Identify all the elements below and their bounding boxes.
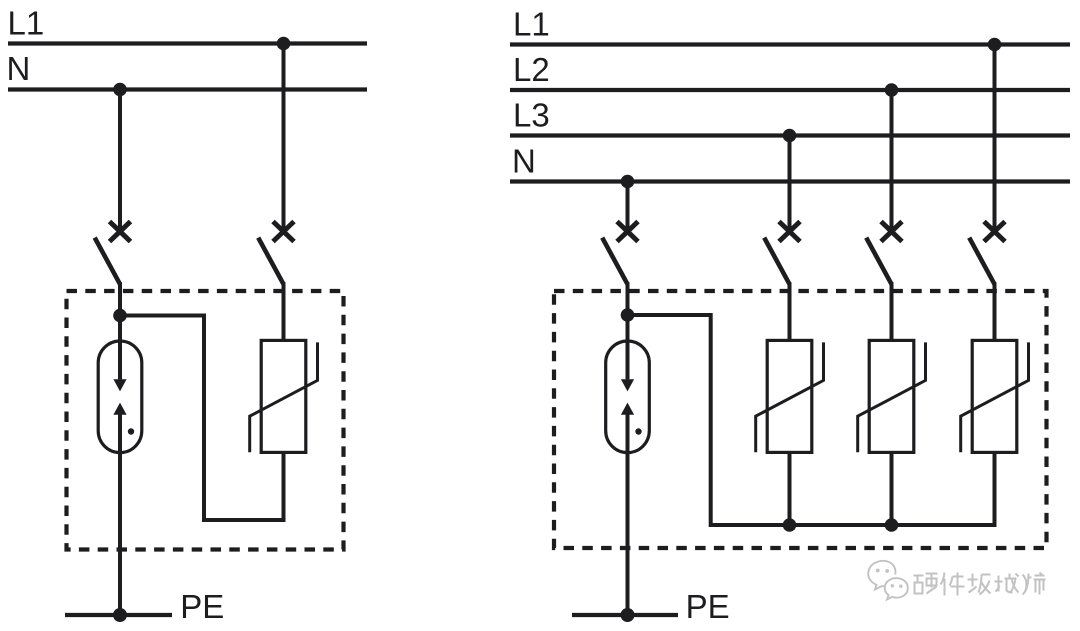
node N tap (right)	[621, 175, 635, 189]
surge arrester GDT body U2 (right)	[606, 341, 650, 453]
disconnector blade (L3 branch, right)	[764, 238, 789, 285]
GDT trigger dot U1 (left)	[128, 428, 134, 434]
wire GDT to PE (left)	[118, 415, 122, 616]
wire varistor V1 bottom lead (right)	[788, 453, 792, 526]
wire N drop to disconnector (left)	[118, 90, 122, 232]
svg-text:L1: L1	[513, 6, 550, 43]
wire L1 drop to disconnector (right)	[993, 45, 997, 232]
svg-text:L3: L3	[513, 97, 550, 134]
disconnector blade (L1 branch, right)	[969, 238, 994, 285]
GDT down arrow U1 (left)	[113, 379, 126, 391]
node bus junction V2 (right)	[885, 518, 899, 532]
wire L2 drop to disconnector (right)	[890, 90, 894, 232]
svg-text:N: N	[7, 50, 31, 87]
PE rail (right)	[572, 613, 678, 617]
GDT up arrow U2 (right)	[621, 403, 634, 415]
GDT trigger dot U2 (right)	[635, 428, 641, 434]
varistor diagonal RV1 (left)	[250, 342, 318, 452]
node PE (right)	[621, 608, 635, 622]
varistor diagonal RV4 (right L1)	[961, 342, 1029, 452]
wire blade to varistor RV3 (right L2)	[890, 282, 894, 340]
wire N bus (right)	[510, 179, 1070, 183]
watermark text "硬件攻城狮" (pseudo glyph strokes)	[914, 574, 938, 594]
node PE (left)	[113, 608, 127, 622]
node L2 tap (right)	[885, 83, 899, 97]
wire L3 drop to disconnector (right)	[788, 136, 792, 232]
wire blade to varistor RV4 (right L1)	[993, 282, 997, 340]
svg-text:PE: PE	[180, 588, 224, 625]
wire blade to GDT (right)	[626, 282, 630, 379]
wire blade to varistor (left)	[282, 282, 286, 340]
varistor body RV1 (left)	[261, 340, 306, 452]
PE rail (left)	[65, 613, 172, 617]
svg-text:L2: L2	[513, 51, 550, 88]
wire blade to GDT (left)	[118, 282, 122, 379]
wire L1 drop to disconnector (left)	[282, 44, 286, 232]
node junction GDT branch (right)	[621, 308, 635, 322]
node N tap (left GDT branch)	[113, 83, 127, 97]
wire N bus (left)	[8, 87, 367, 91]
wire L3 bus (right)	[510, 133, 1070, 137]
varistor body RV3 (right L2)	[869, 340, 914, 452]
disconnector X mark (L2 branch, right)	[881, 222, 902, 242]
varistor diagonal RV2 (right L3)	[756, 342, 824, 452]
watermark WeChat logo	[868, 561, 908, 600]
wire varistor V3 bottom lead (right)	[993, 453, 997, 528]
wire blade to varistor RV2 (right L3)	[788, 282, 792, 340]
wire junction to PE bus bar (right)	[628, 315, 995, 525]
disconnector blade (L2 branch, right)	[866, 238, 891, 285]
wire L1 bus (left)	[8, 41, 367, 45]
disconnector blade F2 (left varistor branch)	[258, 238, 283, 285]
wire GDT to PE (right)	[626, 415, 630, 616]
node bus junction V1 (right)	[783, 518, 797, 532]
node L1 tap (left varistor branch)	[277, 37, 291, 51]
disconnector blade F1 (left GDT branch)	[95, 238, 120, 285]
wire varistor V2 bottom lead (right)	[890, 453, 894, 526]
svg-text:N: N	[512, 143, 536, 180]
svg-text:PE: PE	[686, 588, 730, 625]
svg-text:L1: L1	[8, 5, 45, 42]
SPD dashed enclosure (right)	[554, 291, 1047, 548]
disconnector X mark (L3 branch, right)	[779, 222, 800, 242]
disconnector X mark (N branch, right)	[617, 222, 638, 242]
varistor diagonal RV3 (right L2)	[858, 342, 926, 452]
node junction GDT branch (left)	[113, 309, 127, 323]
wire varistor bottom lead (left)	[282, 453, 286, 523]
wire junction to varistor bottom (left)	[120, 316, 284, 521]
surge arrester GDT body U1 (left)	[98, 341, 142, 453]
GDT up arrow U1 (left)	[113, 403, 126, 415]
varistor body RV2 (right L3)	[767, 340, 812, 452]
wire L1 bus (right)	[510, 42, 1070, 46]
SPD dashed enclosure (left)	[67, 291, 344, 550]
wire N drop to disconnector (right)	[626, 182, 630, 232]
node L3 tap (right)	[783, 129, 797, 143]
disconnector X mark F2 (left varistor branch)	[273, 222, 294, 242]
disconnector X mark F1 (left GDT branch)	[110, 222, 131, 242]
varistor body RV4 (right L1)	[972, 340, 1017, 452]
disconnector blade (N branch, right)	[602, 238, 627, 285]
GDT down arrow U2 (right)	[621, 379, 634, 391]
node L1 tap (right)	[988, 38, 1002, 52]
wire L2 bus (right)	[510, 88, 1070, 92]
disconnector X mark (L1 branch, right)	[984, 222, 1005, 242]
